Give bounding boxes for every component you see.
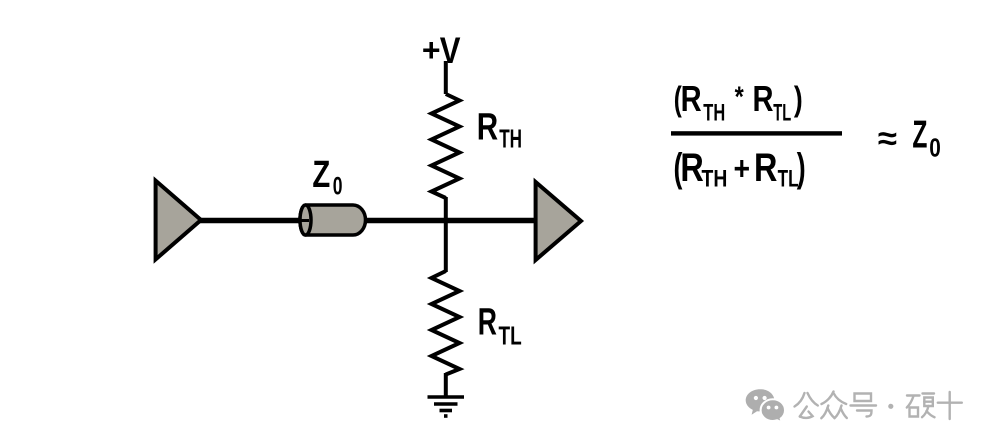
svg-text:0: 0 <box>929 133 941 162</box>
approx equals sign <box>878 121 897 158</box>
svg-text:R: R <box>681 78 702 119</box>
wire: main horizontal net from driver to receiver <box>200 218 536 224</box>
label RTL <box>478 300 497 343</box>
formula Z0 result <box>912 112 927 156</box>
char SHI <box>938 402 962 404</box>
transmission line T1 body <box>300 205 366 235</box>
char YING <box>907 394 920 396</box>
svg-text:≈: ≈ <box>878 121 897 158</box>
label +V <box>422 32 441 68</box>
svg-text:TH: TH <box>499 124 522 154</box>
wire: vertical net +V to ground through junction <box>444 61 448 94</box>
resistor RTH zigzag <box>432 94 460 198</box>
wire: junction segment between resistors <box>444 197 448 272</box>
svg-text:TH: TH <box>702 164 728 192</box>
svg-text:): ) <box>794 80 803 118</box>
formula fraction bar <box>671 131 842 135</box>
svg-text:R: R <box>754 145 777 190</box>
middle dot <box>888 404 893 409</box>
svg-text:Z: Z <box>312 153 330 196</box>
svg-text:Z: Z <box>912 112 927 156</box>
wire tick through left cap <box>298 219 309 222</box>
svg-text:+: + <box>422 32 441 68</box>
svg-text:*: * <box>735 80 745 113</box>
svg-text:+: + <box>734 150 751 188</box>
label RTH <box>477 106 498 148</box>
resistor RTL zigzag <box>432 271 460 375</box>
svg-text:R: R <box>680 145 703 190</box>
svg-text:): ) <box>797 146 806 191</box>
svg-text:TL: TL <box>778 166 799 193</box>
ground symbol <box>428 397 465 416</box>
watermark wechat icon big bubble <box>746 389 785 422</box>
bubble eyes <box>754 396 778 410</box>
svg-text:TL: TL <box>499 321 522 351</box>
svg-text:R: R <box>478 300 497 343</box>
char HAO <box>855 394 872 402</box>
svg-text:TH: TH <box>703 100 725 127</box>
watermark text (hand-drawn CJK) <box>795 392 962 420</box>
watermark wechat icon small bubble <box>761 399 785 422</box>
formula numerator (RTH * RTL) <box>674 81 682 119</box>
formula denominator (RTH + RTL) <box>674 146 683 191</box>
receiver U2 (right buffer triangle) <box>536 182 581 260</box>
svg-text:TL: TL <box>773 100 791 127</box>
char GONG <box>795 393 805 407</box>
svg-text:0: 0 <box>333 171 343 200</box>
label Z0 <box>312 153 330 196</box>
svg-text:R: R <box>753 78 774 119</box>
svg-text:V: V <box>440 31 461 72</box>
char ZHONG <box>822 392 834 405</box>
transmission line T1 left end cap <box>300 205 311 235</box>
driver U1 (left buffer triangle) <box>156 181 201 260</box>
wire: resistor RTL to ground <box>444 373 448 396</box>
svg-text:R: R <box>477 106 498 148</box>
